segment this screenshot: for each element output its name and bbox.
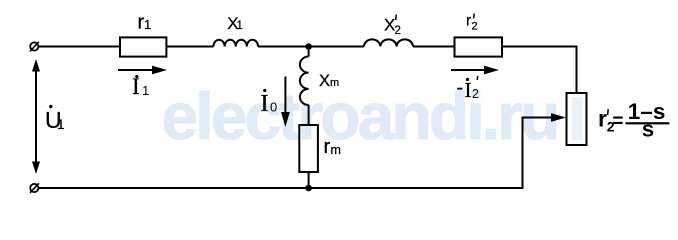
svg-text:r: r [598,105,607,131]
svg-text:=: = [612,111,623,132]
svg-text:1: 1 [142,83,149,98]
svg-text:s: s [642,116,655,141]
svg-text:2: 2 [472,21,478,33]
svg-text:r: r [466,13,471,30]
svg-text:electroandi.ru: electroandi.ru [162,79,558,153]
svg-text:1: 1 [144,17,151,32]
svg-text:1: 1 [237,20,243,32]
svg-text:2: 2 [395,25,401,37]
svg-text:1: 1 [57,117,65,132]
svg-text:I: I [132,74,140,99]
